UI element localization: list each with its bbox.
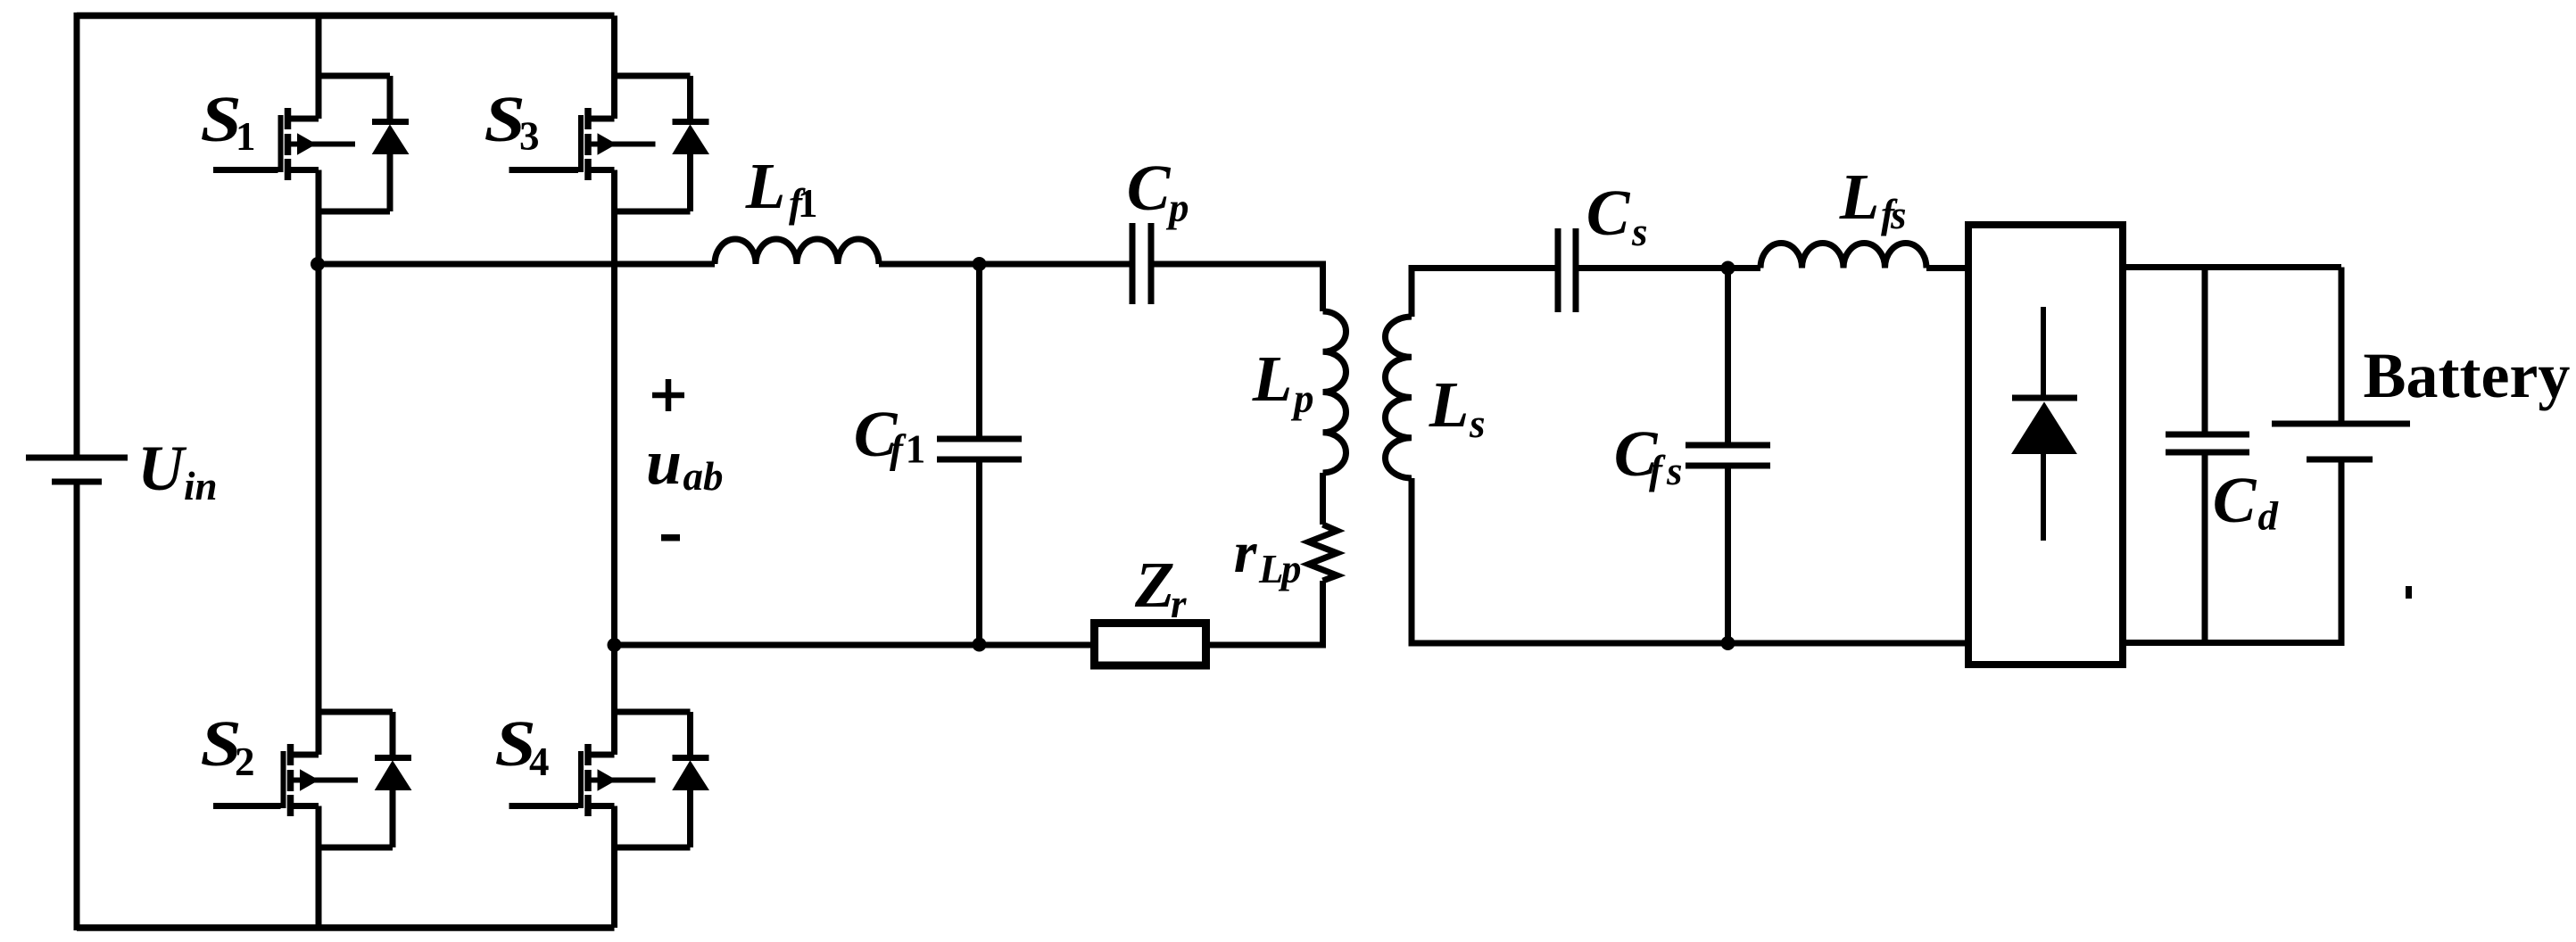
wire: Ls bottom lead / secondary bottom rail xyxy=(1412,478,1967,643)
capacitor Cd xyxy=(2166,268,2249,643)
svg-text:C: C xyxy=(2213,464,2257,536)
svg-text:2: 2 xyxy=(235,740,255,784)
svg-text:ab: ab xyxy=(683,454,724,499)
wire: leg2 bottom segment (S4 source to bottom rail) xyxy=(611,806,617,929)
inductor Lf1 xyxy=(715,239,879,264)
svg-text:L: L xyxy=(1839,161,1880,233)
inductor Ls (secondary coil) xyxy=(1386,317,1412,478)
junction: Cfs top node xyxy=(1721,261,1735,276)
junction: Cf1 top node xyxy=(973,257,987,271)
svg-text:r: r xyxy=(1171,582,1187,626)
svg-text:3: 3 xyxy=(519,114,540,159)
svg-text:s: s xyxy=(1631,210,1648,254)
wire: Lfs to rectifier xyxy=(1926,265,1968,271)
battery Battery (output) xyxy=(2272,268,2410,647)
svg-text:p: p xyxy=(1290,376,1314,421)
capacitor Cs xyxy=(1558,228,1576,312)
wire: top rail xyxy=(77,12,615,20)
resistor Zr (impedance box) xyxy=(1095,624,1206,666)
stray tick mark xyxy=(2406,586,2412,599)
svg-text:L: L xyxy=(1258,547,1284,591)
svg-text:r: r xyxy=(1234,520,1258,585)
svg-text:L: L xyxy=(1429,368,1470,441)
wire: output top rail xyxy=(2123,264,2341,270)
junction node b xyxy=(608,638,622,652)
svg-text:Battery: Battery xyxy=(2364,340,2571,411)
svg-text:s: s xyxy=(1890,193,1907,237)
resistor rLp xyxy=(1309,525,1338,581)
svg-text:Z: Z xyxy=(1134,549,1175,621)
wire: Cp to Lp (with corner) xyxy=(1151,264,1323,311)
svg-text:L: L xyxy=(1252,343,1293,415)
transistor S4 xyxy=(509,712,709,847)
svg-text:1: 1 xyxy=(236,114,256,159)
svg-text:C: C xyxy=(1127,152,1172,224)
svg-text:s: s xyxy=(1666,449,1683,493)
capacitor Cfs xyxy=(1686,269,1770,644)
label plus sign xyxy=(652,379,684,411)
wire: Lp to rLp xyxy=(1320,473,1326,525)
wire: leg1 middle segment (S1 source - node a - S2 drain) xyxy=(316,170,322,756)
svg-text:in: in xyxy=(184,464,218,508)
svg-text:p: p xyxy=(1278,547,1302,591)
transistor S3 xyxy=(509,76,709,211)
svg-text:1: 1 xyxy=(906,427,926,472)
svg-text:u: u xyxy=(646,426,682,498)
wire: bottom rail xyxy=(77,924,615,931)
wire: leg2 drain segment (top rail to S3) xyxy=(611,16,617,120)
svg-text:C: C xyxy=(1586,177,1631,249)
wire: leg2 middle segment (S3 source - node b - S4 drain) xyxy=(611,170,617,756)
svg-text:U: U xyxy=(137,433,187,504)
wire: rLp to bottom rail corner xyxy=(1206,581,1323,645)
wire: left wire upper (Uin top lead) xyxy=(74,12,80,458)
transistor S1 xyxy=(213,76,409,211)
svg-text:1: 1 xyxy=(798,181,818,226)
rectifier bridge box xyxy=(1968,225,2123,665)
svg-text:p: p xyxy=(1165,186,1189,230)
wire: Ls top lead to Cs xyxy=(1412,269,1558,318)
capacitor Cf1 xyxy=(937,264,1022,645)
inductor Lp (primary coil) xyxy=(1323,311,1346,473)
capacitor Cp xyxy=(1132,223,1151,304)
wire: leg1 drain segment (top rail to S1) xyxy=(316,16,322,120)
wire: leg1 bottom segment (S2 source to bottom rail) xyxy=(316,806,322,929)
wire: node a rail to Lf1 xyxy=(319,261,715,268)
junction: Cf1 bottom node xyxy=(973,638,987,652)
svg-text:4: 4 xyxy=(529,740,550,784)
wire: Cs to Cfs node xyxy=(1576,265,1760,271)
wire: output bottom rail xyxy=(2123,640,2341,646)
diode D (inside rectifier) xyxy=(2012,307,2077,541)
svg-text:d: d xyxy=(2258,494,2280,539)
transistor S2 xyxy=(213,712,411,847)
inductor Lfs xyxy=(1760,244,1926,269)
junction node a xyxy=(311,257,325,271)
label minus sign xyxy=(661,534,680,541)
wire: Lf1 to Cf1 node xyxy=(879,261,1132,268)
junction: Cfs bottom node xyxy=(1721,636,1735,650)
wire: left wire lower (Uin bottom lead) xyxy=(74,482,80,930)
wire: node b rail (S3/S4 midpoint to Zr) xyxy=(615,642,1095,649)
svg-text:L: L xyxy=(745,150,786,222)
battery Uin (DC source) xyxy=(26,458,128,482)
svg-text:s: s xyxy=(1469,401,1486,446)
